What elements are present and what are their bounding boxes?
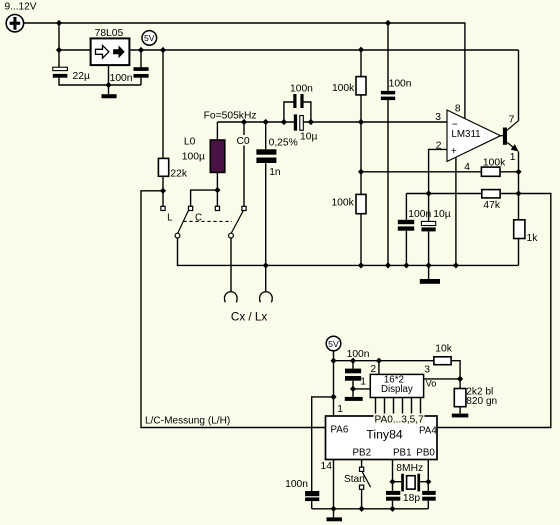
label C0 [236,135,251,147]
ground main bus [420,279,440,284]
svg-text:100n: 100n [110,73,133,84]
switch S2 pivot [229,233,234,238]
ground stub regulator [108,65,110,94]
wire display pin1 [353,388,370,390]
svg-text:0,25%: 0,25% [269,138,298,149]
terminal hook Cx left [225,292,238,302]
svg-text:C0: C0 [237,136,250,147]
svg-text:L/C-Messung (L/H): L/C-Messung (L/H) [145,415,230,426]
resistor 100k top [356,77,366,95]
switch start terminal top [360,467,364,471]
svg-text:100k: 100k [332,83,355,94]
wire pin2 [429,149,447,193]
svg-text:10k: 10k [435,344,452,355]
ground 2k2 [452,414,469,418]
capacitor 18p left [386,491,400,501]
svg-text:1k: 1k [527,233,539,244]
wire 100n reg branch [140,50,142,85]
wire terminal T1 stub [162,191,164,207]
supply terminal plus circle [6,15,23,32]
capacitor 100n oscillator loop [293,94,303,108]
switch terminal T2 [189,206,193,210]
svg-text:2: 2 [370,364,376,375]
svg-text:5V: 5V [144,33,155,43]
svg-text:22k: 22k [170,169,187,180]
svg-text:4: 4 [464,162,470,173]
svg-text:8: 8 [455,103,461,114]
wire feedback line y172 [361,171,519,173]
capacitor 100n tiny [305,491,319,501]
wire 10k right lead [451,361,460,379]
svg-text:5V: 5V [328,339,339,349]
resistor 10k [434,357,451,365]
wire display pin3 Vo [424,378,461,380]
wire plus-input line y193.5 [406,193,518,195]
display pin stubs PA0..7 [376,398,421,417]
regulator U 78L05 [91,38,130,65]
wire left long branch to PA6 [141,191,326,428]
svg-text:2: 2 [436,141,442,152]
wire 100n bypass loop [284,102,311,122]
svg-text:18p: 18p [403,493,420,504]
capacitor 10u pin2 electrolytic [421,221,435,231]
capacitor 22u electrolytic [53,67,68,78]
resistor 100k feedback [481,167,500,176]
svg-text:L0: L0 [184,137,196,148]
wire 22k drop [162,50,164,191]
capacitor 10u oscillator electrolytic [294,114,304,130]
svg-text:100n: 100n [408,209,431,220]
svg-text:820 gn: 820 gn [466,396,497,407]
wire 10u pin2 branch [428,194,430,266]
wire down to tiny pin1 [333,361,335,416]
crystal 8MHz [401,474,420,492]
ground stub main [428,265,430,279]
wire 100n pin2 branch [405,194,407,266]
svg-text:22µ: 22µ [73,71,90,82]
svg-text:10µ: 10µ [300,131,317,142]
svg-text:Tiny84: Tiny84 [366,428,403,442]
wire 5V display stub [333,350,335,361]
wire top 9-12V rail [24,23,465,118]
svg-text:100n: 100n [290,83,313,94]
wire display pin2 [378,361,380,375]
wire 5V rail [129,49,518,51]
capacitor C0 1n [256,149,276,163]
svg-text:1: 1 [510,152,516,163]
wire terminal T4 drop [243,122,245,206]
capacitor 18p right [422,491,436,501]
svg-text:Vo: Vo [426,379,437,389]
svg-text:100k: 100k [483,158,506,169]
wire display top rail [334,360,434,362]
wire L0 bottom to terminals [191,172,218,206]
wire PB2 to start switch [361,460,363,509]
svg-text:100µ: 100µ [182,151,205,162]
wire left branch to 100n tiny [312,397,334,509]
wire 100n display branch [352,361,354,397]
wire 2k2 branch [459,379,461,414]
inductor L0 100u [210,140,225,172]
capacitor 100n bypass [381,91,395,100]
node 5V supply circle [142,31,157,46]
svg-text:LM311: LM311 [451,129,480,140]
svg-text:100n: 100n [389,78,412,89]
resistor 2k2 [454,389,466,407]
svg-text:PA4: PA4 [419,425,437,436]
svg-text:Fo=505kHz: Fo=505kHz [204,111,257,122]
switch terminal T4 [242,206,246,210]
label PA0...3,5,7 [374,414,425,426]
svg-text:1n: 1n [269,167,281,178]
svg-text:PB1: PB1 [393,448,412,459]
svg-text:PA6: PA6 [331,425,349,436]
svg-text:9...12V: 9...12V [5,2,37,13]
svg-text:PA0...3,5,7: PA0...3,5,7 [375,415,425,426]
wire emitter chain 1k [518,152,520,266]
svg-text:PB2: PB2 [353,448,372,459]
svg-text:100k: 100k [331,197,354,208]
svg-text:8MHz: 8MHz [396,463,423,474]
switch start terminal bottom [360,485,364,489]
resistor 22k [158,158,168,176]
wire 22u branch [59,50,141,85]
svg-text:3: 3 [424,364,430,375]
switch start lever [362,472,370,487]
svg-text:14: 14 [321,461,333,472]
wire 100k1 chain [360,50,362,266]
wire pin4 [455,157,457,265]
resistor 1k [514,220,525,239]
wire PB0 crystal right [427,460,429,509]
switch S2 lever [231,211,243,234]
resistor 100k lower [356,194,366,213]
switch terminal T1 [161,206,165,210]
svg-text:L: L [167,213,173,224]
wire collector drop [518,50,520,121]
svg-text:100n: 100n [347,349,370,360]
capacitor 100n regulator [134,67,149,78]
resistor 47k [482,190,500,198]
ground tiny bottom [327,517,343,521]
switch S1 lever [178,211,189,234]
ground regulator [102,94,117,98]
svg-text:100n: 100n [285,479,308,490]
wire supply input drop [58,23,60,50]
wire 100n bypass drop [387,23,389,265]
wire oscillator line to pin3 [217,121,447,123]
display module 16x2 [370,374,423,397]
svg-text:+: + [451,146,457,157]
svg-text:PB0: PB0 [416,448,435,459]
transistor Q output [501,121,519,152]
svg-text:Start: Start [344,474,366,485]
capacitor 100n display [345,369,361,381]
wire switch C pivot drop [230,238,232,292]
wire regulator input [59,49,91,51]
wire right side to PA4 [437,194,551,428]
wire 1n branch [265,122,267,292]
node 5V display circle [326,336,341,351]
ground display [345,397,363,401]
svg-text:Cx / Lx: Cx / Lx [231,311,268,324]
wire crystal leads [393,481,429,483]
svg-text:1: 1 [360,377,366,388]
svg-text:3: 3 [435,112,441,123]
svg-text:7: 7 [509,114,515,125]
svg-text:78L05: 78L05 [95,28,124,39]
wire tiny pin14 [333,460,335,518]
switch link dashed [183,220,232,222]
svg-text:47k: 47k [483,200,500,211]
capacitor 100n pin2 [398,220,414,231]
switch terminal T3 [215,206,219,210]
svg-text:10µ: 10µ [433,209,450,220]
svg-text:1: 1 [337,404,343,415]
terminal hook Lx right [260,292,273,302]
mcu Tiny84 [326,416,438,460]
wire bottom rail tiny [312,508,429,510]
op-amp U1 LM311 [447,110,501,162]
wire PB1 crystal left [392,460,394,509]
svg-text:Display: Display [381,384,413,395]
wire L0 top [216,122,218,140]
wire ground bus [178,238,519,266]
switch S1 pivot [175,233,180,238]
